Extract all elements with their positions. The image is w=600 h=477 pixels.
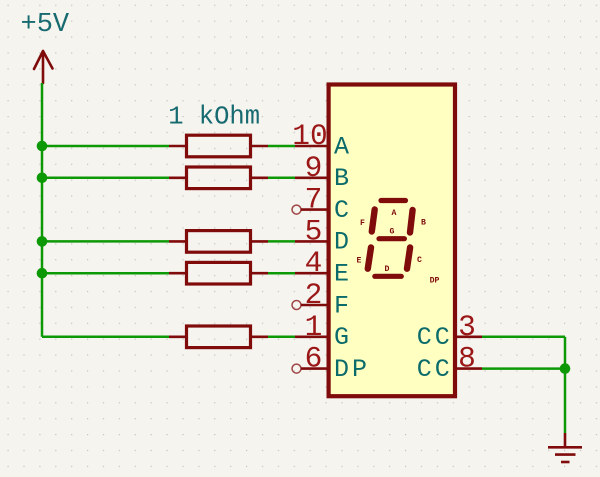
svg-text:F: F [334, 291, 349, 320]
resistor R3 [169, 231, 268, 253]
wire row D left [42, 240, 169, 243]
pin 7 (C) unconnected [292, 183, 349, 225]
segment G [379, 236, 404, 241]
wire row A right [268, 145, 295, 148]
svg-text:4: 4 [305, 246, 323, 280]
svg-text:8: 8 [458, 342, 476, 376]
pin 9 (B) [295, 151, 349, 193]
svg-text:A: A [392, 209, 397, 218]
pin 10 (A) [292, 119, 349, 161]
wire row A left [42, 145, 169, 148]
junction at rail row E [37, 268, 48, 279]
segment B [410, 210, 413, 233]
junction at rail row B [37, 173, 48, 184]
svg-text:CC: CC [417, 355, 453, 384]
wire row G right [268, 336, 295, 339]
svg-text:7: 7 [305, 183, 323, 217]
svg-text:10: 10 [292, 119, 327, 153]
pin 6 (DP) unconnected [292, 342, 370, 384]
svg-text:E: E [357, 257, 362, 266]
junction CC node [560, 363, 571, 374]
svg-text:B: B [421, 219, 426, 228]
svg-text:CC: CC [417, 323, 453, 352]
7-segment display U1 body [329, 85, 455, 397]
pin 1 (G) [295, 310, 349, 352]
svg-text:A: A [334, 132, 349, 161]
wire row B left [42, 177, 169, 180]
segment A [381, 198, 406, 203]
pin 5 (D) [295, 214, 349, 256]
svg-text:6: 6 [305, 342, 323, 376]
wire row E right [268, 272, 295, 275]
wire row E left [42, 272, 169, 275]
resistor R2 [169, 167, 268, 189]
7-segment digit graphic [368, 201, 413, 277]
segment F [372, 210, 375, 232]
svg-text:5: 5 [305, 214, 323, 248]
resistor R1 [169, 135, 268, 157]
svg-text:1 kOhm: 1 kOhm [168, 103, 260, 132]
wire pin8 to junction [482, 367, 565, 370]
resistor R5 [169, 326, 268, 348]
ground [548, 433, 582, 462]
svg-text:F: F [360, 219, 365, 228]
segment E [368, 248, 371, 269]
wire corner down to junction [564, 337, 567, 369]
wire pin3 to corner [482, 336, 565, 339]
svg-text:3: 3 [458, 310, 476, 344]
svg-text:C: C [334, 196, 349, 225]
wire row G left [42, 336, 169, 339]
svg-text:D: D [385, 265, 390, 274]
wire row B right [268, 177, 295, 180]
segment labels [357, 209, 440, 286]
pin 8 (CC) [417, 342, 482, 384]
svg-text:G: G [334, 323, 349, 352]
pin 4 (E) [295, 246, 349, 288]
junction at rail row A [37, 141, 48, 152]
svg-text:E: E [334, 260, 349, 289]
svg-text:1: 1 [305, 310, 323, 344]
svg-text:G: G [390, 228, 395, 237]
pin 3 (CC) [417, 310, 482, 352]
svg-text:9: 9 [305, 151, 323, 185]
svg-text:DP: DP [430, 277, 440, 286]
wire vertical +5V rail [41, 83, 44, 337]
junction at rail row D [37, 236, 48, 247]
segment D [375, 274, 402, 279]
wire row D right [268, 240, 295, 243]
svg-text:D: D [334, 228, 349, 257]
pin 2 (F) unconnected [292, 278, 349, 320]
svg-text:B: B [334, 164, 349, 193]
resistor R4 [169, 262, 268, 284]
segment C [407, 248, 410, 269]
svg-text:DP: DP [334, 355, 370, 384]
svg-text:2: 2 [305, 278, 323, 312]
wire junction to ground [564, 369, 567, 433]
power symbol +5V [21, 10, 70, 83]
svg-text:C: C [417, 256, 422, 265]
svg-text:+5V: +5V [21, 10, 70, 40]
